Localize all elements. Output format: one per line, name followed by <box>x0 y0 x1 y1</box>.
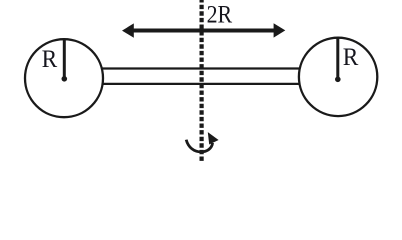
distance arrow shaft <box>131 29 276 33</box>
rotation arrowhead <box>208 132 219 144</box>
svg-text:R: R <box>343 42 359 71</box>
rod top edge <box>100 67 302 69</box>
rotation direction arc <box>186 140 212 152</box>
svg-text:2R: 2R <box>207 0 233 28</box>
rotation axis (dashed) <box>200 0 204 162</box>
distance arrow right head <box>274 23 286 37</box>
right radius line <box>336 39 339 80</box>
distance arrow left head <box>122 23 134 37</box>
rod bottom edge <box>100 83 302 85</box>
left center dot <box>62 76 68 82</box>
right center dot <box>335 77 341 83</box>
svg-text:R: R <box>42 44 58 73</box>
right sphere <box>299 38 377 116</box>
left radius line <box>63 40 66 79</box>
left sphere <box>25 39 103 117</box>
